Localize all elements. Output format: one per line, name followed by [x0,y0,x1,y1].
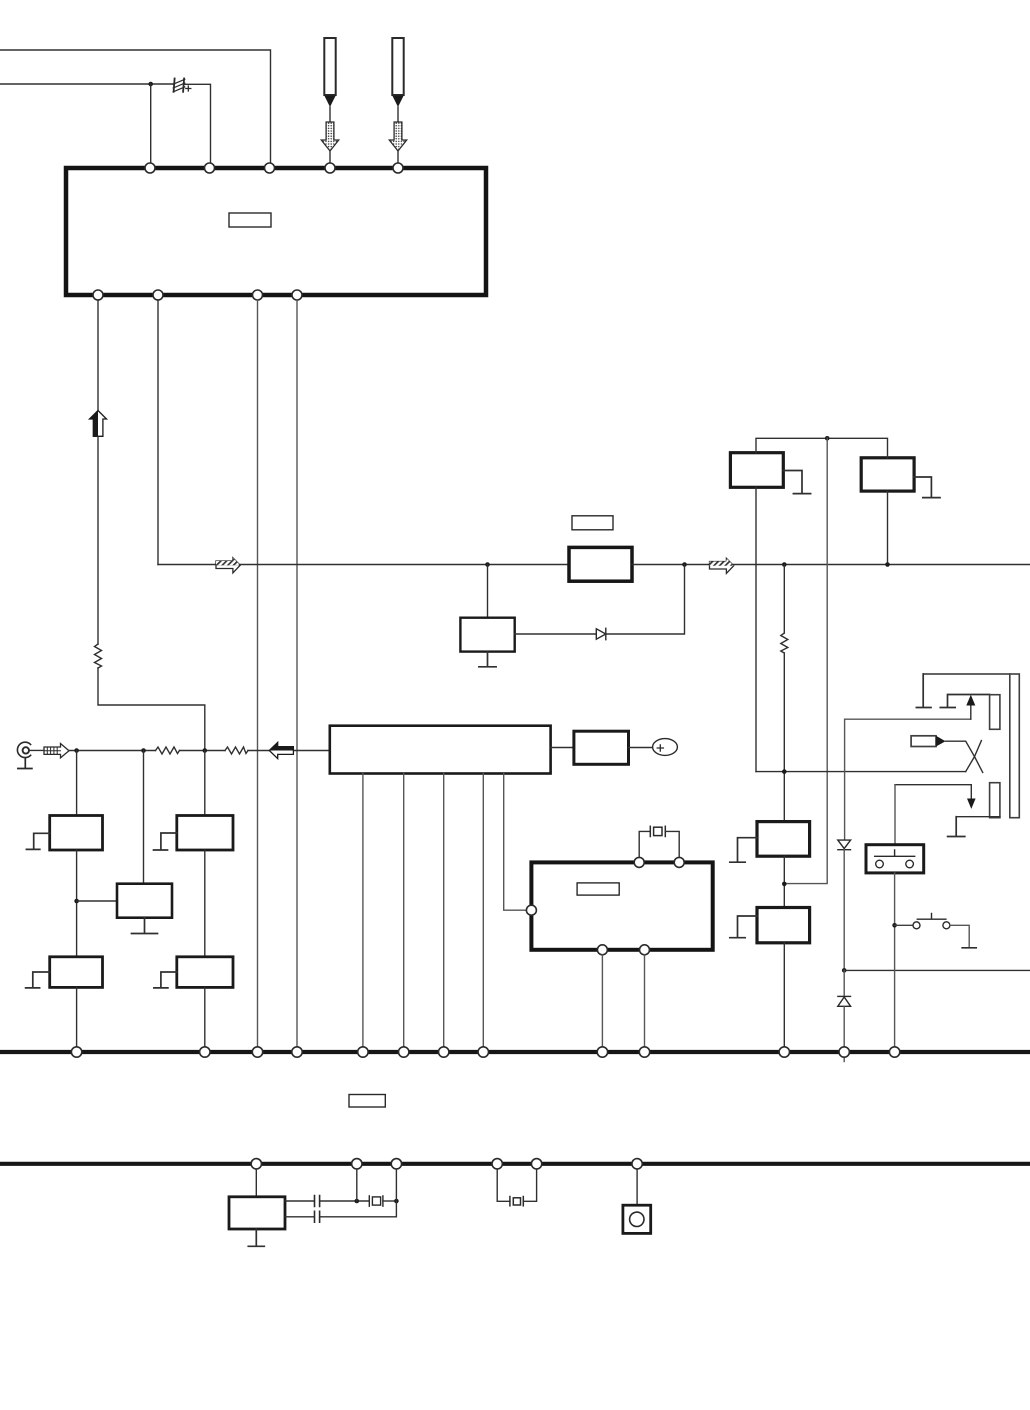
pin 8 [253,290,263,300]
signal arrow hatched right 1 [216,558,240,573]
bus1 node e [358,1047,368,1057]
wire box B bottom down [887,491,889,564]
bus1 node h [478,1047,488,1057]
pin 7 [153,290,163,300]
jack lower contact line [895,784,971,786]
pin 1 [145,163,155,173]
wire E-bot1 to bus [601,955,603,1047]
IC U1 main block [66,168,486,295]
box I [574,731,629,764]
box D [757,908,810,943]
ground left of box D [730,916,757,938]
node ant-1 [74,748,79,753]
wire C3 to node [321,1201,397,1217]
test probe TP1 [321,38,338,164]
wire capacitor to pin 2 [184,84,211,163]
wire horizontal to jack switch [756,771,966,773]
ground right of box A [783,471,810,494]
node signal-D [682,562,687,567]
bus2 node e [531,1159,541,1169]
wire node to diode D3 [843,970,845,996]
jack J1 sleeve [1010,674,1020,818]
wire R4 to R5 [180,750,226,752]
diode D1 [596,628,606,639]
wire T1 pin c to bus [443,774,445,1048]
ground left of box4 [26,972,50,988]
piezo buzzer K [623,1205,651,1233]
bus1 node b [200,1047,210,1057]
ground below box J [248,1229,264,1246]
jack tip contact upper [990,695,1000,730]
box J [229,1197,285,1229]
wire bus2 stub 1 [356,1169,358,1201]
ground right of box B [914,477,940,498]
ground left of box5 [154,972,177,988]
jack arrow down [970,785,972,800]
jack plug symbol [911,736,981,757]
jack contact plate 2 [940,695,989,708]
ground left of box1 [26,833,49,849]
node osc-2 [394,1199,399,1204]
jack bottom line [956,816,1000,818]
signal arrow hatched right 2 [710,558,734,573]
bus1 node f [399,1047,409,1057]
jack J1 top line [923,673,1010,675]
wire button S1 down to bus [894,873,896,1047]
wire box C to box D [783,856,785,907]
box 4 [50,957,103,988]
pin E-top2 [674,857,684,867]
bus1 node circles [71,1047,899,1057]
ground bus 1 [0,1050,1030,1054]
wire box J top out [285,1200,314,1202]
wire top link A-B [756,438,888,458]
label E [577,883,619,895]
wire bus2 to piezo [636,1169,638,1205]
wire E-bot2 to bus [644,955,646,1047]
bus1 node d [292,1047,302,1057]
wire box J bottom out [285,1216,314,1218]
pin 2 [205,163,215,173]
pin E-bot2 [640,945,650,955]
wire branch to pin 1 [150,84,152,164]
box H [460,618,514,652]
ground below box H [479,652,496,667]
box C [757,822,810,857]
node ant-3 [203,748,208,753]
ground below jack [948,817,965,837]
wire box H to diode [515,633,597,635]
wire diode D3 to bus [843,1006,845,1047]
wire C2 to crystal [321,1200,370,1202]
node diode line [842,968,847,973]
box A [730,453,783,488]
wire ant node2 to box3 [143,751,145,884]
arrow up half-filled [90,411,107,437]
node ant-2 [141,748,146,753]
wire box1 to box4 [76,850,78,957]
node osc-1 [355,1199,360,1204]
wire arrow to resistor [97,436,99,644]
crystal X1 [639,826,679,857]
wire box A bottom down [755,487,757,771]
jack arrow up [970,705,972,720]
wire long vertical to node [784,438,827,883]
wire resistor to antenna line [98,668,205,751]
bus1 node i [597,1047,607,1057]
resistor R1 [95,644,102,668]
bus1 node j [639,1047,649,1057]
crystal X2 [369,1196,383,1206]
node cross-4way [782,769,787,774]
box 5 [177,957,233,988]
wire box4 to bus [76,987,78,1047]
jack switch crossover [966,757,983,773]
node left mid [74,899,79,904]
wire node right edge [844,969,1030,971]
wire signal line right [632,564,1030,566]
pin 3 [265,163,275,173]
node button branch [892,923,897,928]
box 1 [50,816,103,851]
wire bus2 to crystal X3 [497,1169,510,1201]
resistor R3 [781,633,788,653]
wire T1 pin b to bus [403,774,405,1048]
pin 4 [325,163,335,173]
ground left of box C [730,838,757,863]
capacitor C1 [173,79,191,92]
ground left of box2 [154,833,177,850]
wire diode D2 to node [843,850,845,971]
node box C-D [782,882,787,887]
box B [861,458,914,491]
pushbutton S1 box [866,845,924,873]
wire pin9 down to bus [296,300,298,1047]
wire pin6 down [97,300,99,410]
wire jack to button S1 [894,785,896,845]
IC E block [531,862,712,949]
label F [572,516,613,530]
tuner block T1 [330,726,551,774]
wire node to resistor R3 [783,565,785,634]
box 3 [117,884,172,918]
node junction top [148,82,153,87]
wire top input 1 [0,50,271,164]
wire crystal X3 to bus2 [523,1169,536,1201]
wire box2 to box5 [204,850,206,957]
crystal X3 [510,1197,523,1206]
bus2 node c [391,1159,401,1169]
wire top input 2 [0,83,174,85]
switch S2 [895,913,950,928]
wire bus2 to box J [255,1169,257,1197]
bus1 node a [71,1047,81,1057]
bus1 node k [779,1047,789,1057]
pin 6 [93,290,103,300]
wire box I to battery [629,747,653,749]
wire box5 to bus [204,987,206,1047]
wire pin8 down to bus [257,300,259,1047]
bus2 node a [251,1159,261,1169]
bus1 node g [439,1047,449,1057]
jack contact plate 1 [916,674,931,708]
diode D2 [838,840,851,850]
wire T1 pin e to IC E [504,774,526,911]
pin E-left [526,905,536,915]
wire box D to bus [783,943,785,1047]
wire diode up to node [606,565,685,635]
ground below switch S2 [962,947,976,949]
node signal-E [885,562,890,567]
wire R5 to arrow [248,750,330,752]
arrow left half-filled [269,742,293,758]
wire stub below bus [843,1057,845,1062]
node resistor top [782,562,787,567]
wire T1 pin a to bus [362,774,364,1048]
ground bus 2 [0,1162,1030,1166]
capacitor C2 [315,1196,320,1207]
capacitor C3 [315,1211,320,1222]
wire ant node1 to box1 [76,751,78,816]
resistor R5 [225,747,248,754]
antenna jack symbol [17,742,31,768]
wire node to box3 [77,900,117,902]
pushbutton S1 contacts [875,850,915,868]
resistor R4 [156,747,180,754]
wire crystal to node [383,1200,397,1202]
bus1 node c [252,1047,262,1057]
wire antenna line [29,749,156,751]
box 2 [177,816,233,851]
diode D3 [838,996,851,1006]
wire signal line left [158,564,569,566]
test probe TP2 [389,38,406,164]
wire T1 right to box I [551,747,574,749]
bus2 node circles [251,1159,642,1169]
bus2 node b [352,1159,362,1169]
wire diode branch top [845,719,971,840]
wire switch S2 to ground [950,925,969,947]
bus2 node f [632,1159,642,1169]
battery plus terminal [653,739,678,756]
wire T1 pin d to bus [482,774,484,1048]
wire node to box H [487,565,489,618]
node signal-C [485,562,490,567]
pin E-top1 [634,857,644,867]
pin E-bot1 [597,945,607,955]
wire bus2 stub 2 [395,1169,397,1201]
node top link [825,436,830,441]
bus1 node m [889,1047,899,1057]
pin 5 [393,163,403,173]
filter box F [569,547,632,581]
ground below box3 [132,918,158,934]
wire resistor to box C [783,653,785,822]
label U1 [229,213,271,227]
wire ant node3 to box2 [204,751,206,816]
pin 9 [292,290,302,300]
bus1 node l [839,1047,849,1057]
label bus1 [349,1095,385,1108]
jack tip contact lower [990,783,1000,818]
antenna arrow hatched [44,744,69,758]
bus2 node d [492,1159,502,1169]
wire pin7 down [157,300,159,565]
